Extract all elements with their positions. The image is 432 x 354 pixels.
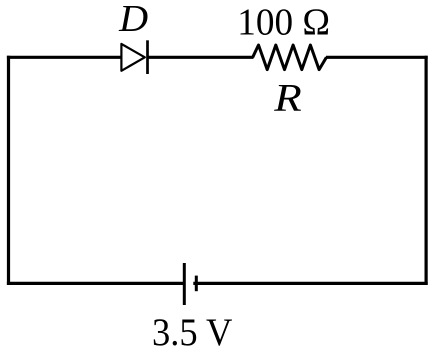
svg-text:100 Ω: 100 Ω	[237, 2, 330, 44]
battery short plate (-)	[195, 276, 198, 292]
wire right side	[425, 56, 428, 285]
diode D triangle (anode)	[121, 44, 144, 71]
wire battery to bottom-right corner	[193, 282, 427, 285]
battery long plate (+)	[183, 263, 186, 305]
resistor R zigzag	[253, 45, 327, 70]
wire diode to resistor	[148, 56, 254, 59]
svg-text:3.5 V: 3.5 V	[152, 311, 233, 354]
diode D cathode bar	[146, 40, 149, 74]
wire bottom-left to battery	[7, 282, 184, 285]
wire resistor to top-right corner	[326, 56, 428, 59]
wire left side	[7, 56, 10, 285]
svg-text:D: D	[118, 0, 148, 40]
wire top-left to diode	[7, 56, 122, 59]
svg-text:R: R	[273, 76, 302, 120]
